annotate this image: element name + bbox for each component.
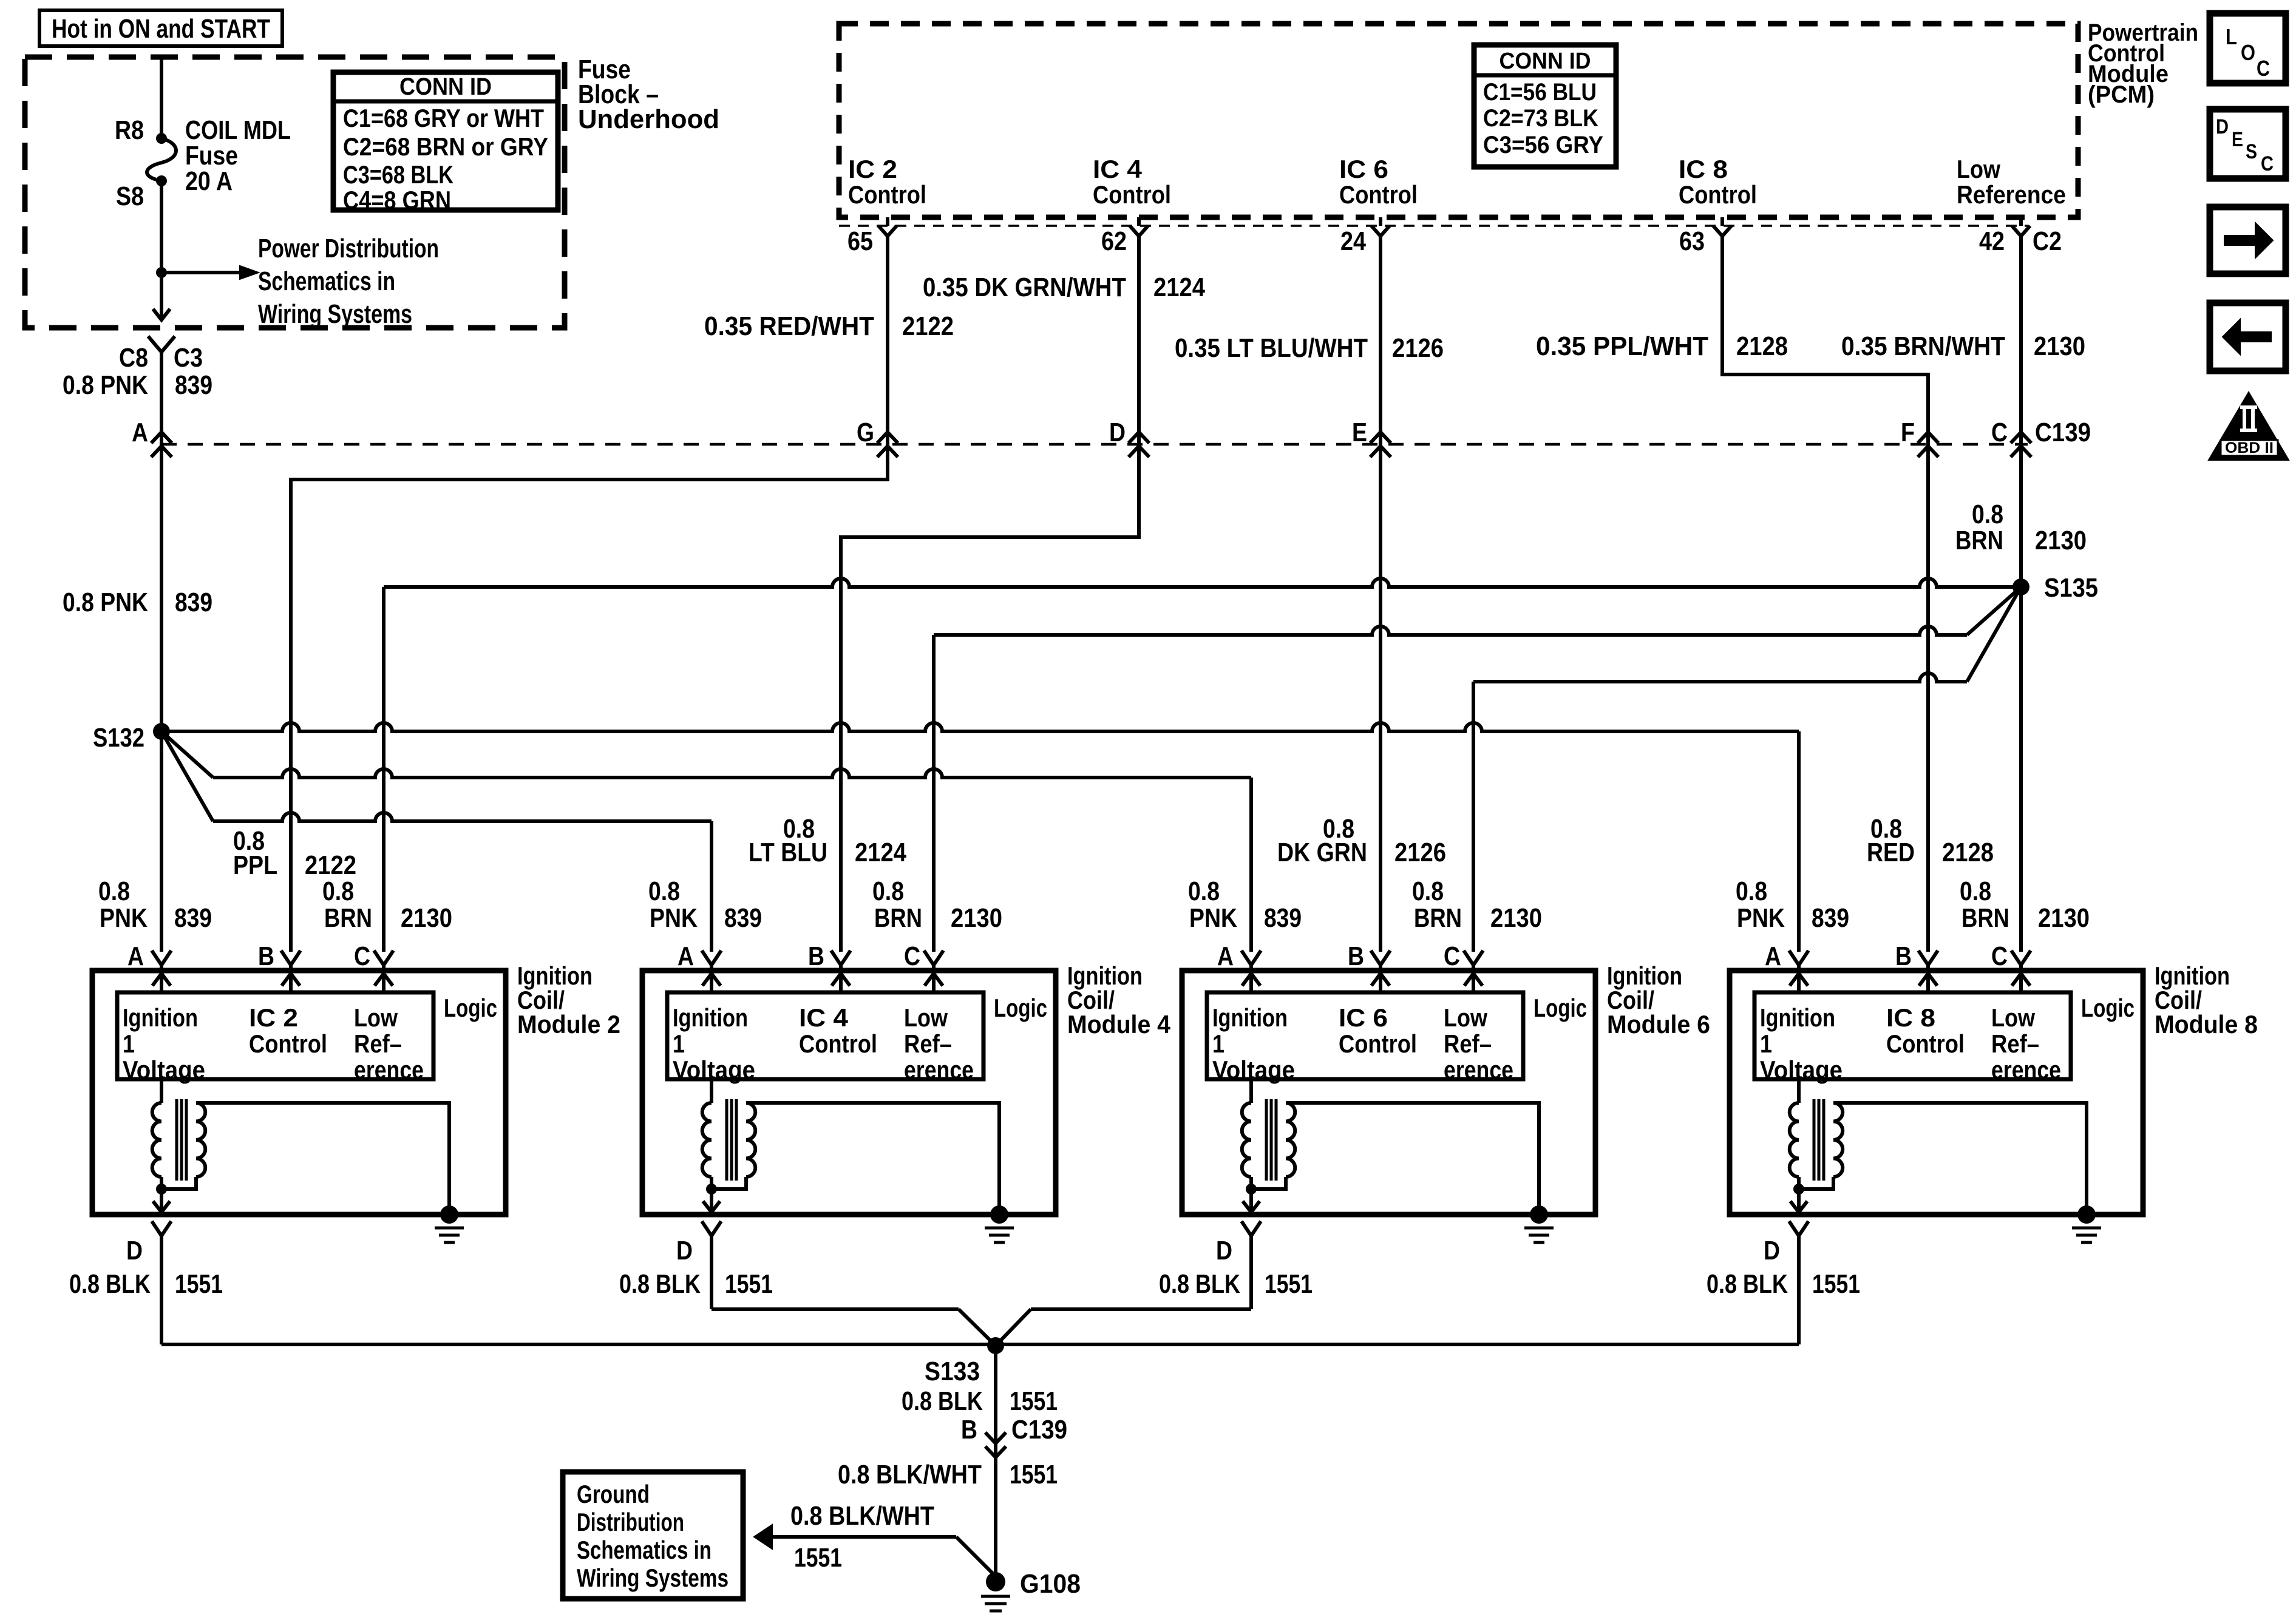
svg-text:erence: erence — [904, 1056, 974, 1084]
svg-text:Low: Low — [354, 1003, 398, 1032]
svg-text:Power Distribution: Power Distribution — [258, 234, 439, 263]
svg-text:Module 2: Module 2 — [517, 1010, 620, 1039]
svg-text:D: D — [1216, 1236, 1232, 1266]
svg-text:20 A: 20 A — [185, 166, 233, 196]
svg-text:839: 839 — [175, 370, 212, 400]
svg-text:BRN: BRN — [1961, 903, 2009, 933]
svg-text:24: 24 — [1340, 226, 1366, 256]
svg-text:Low: Low — [904, 1003, 948, 1032]
svg-text:0.8: 0.8 — [648, 876, 680, 906]
svg-text:DK GRN: DK GRN — [1277, 838, 1367, 867]
svg-text:2130: 2130 — [1490, 903, 1542, 933]
svg-text:Underhood: Underhood — [578, 104, 719, 134]
svg-text:C8: C8 — [119, 343, 148, 373]
svg-text:Distribution: Distribution — [577, 1508, 684, 1536]
svg-text:(PCM): (PCM) — [2088, 81, 2155, 108]
svg-text:PPL: PPL — [233, 850, 277, 880]
svg-text:2122: 2122 — [305, 850, 356, 880]
svg-text:Voltage: Voltage — [1760, 1056, 1843, 1084]
svg-text:Control: Control — [1679, 180, 1757, 209]
svg-text:BRN: BRN — [324, 903, 372, 933]
svg-text:0.8: 0.8 — [1736, 876, 1767, 906]
svg-text:0.8: 0.8 — [1960, 876, 1991, 906]
svg-text:2130: 2130 — [2035, 526, 2087, 555]
svg-text:0.8 BLK: 0.8 BLK — [902, 1386, 983, 1416]
svg-text:CONN ID: CONN ID — [399, 73, 492, 100]
svg-text:IC 6: IC 6 — [1339, 155, 1388, 183]
svg-text:Ref–: Ref– — [1991, 1029, 2039, 1058]
svg-text:839: 839 — [1264, 903, 1302, 933]
svg-text:0.8: 0.8 — [1188, 876, 1220, 906]
svg-text:0.8: 0.8 — [1412, 876, 1444, 906]
svg-text:Voltage: Voltage — [1212, 1056, 1295, 1084]
svg-text:1: 1 — [673, 1029, 685, 1058]
svg-text:BRN: BRN — [1955, 526, 2003, 555]
svg-text:PNK: PNK — [650, 903, 698, 933]
svg-text:S8: S8 — [116, 181, 144, 211]
svg-text:C139: C139 — [1011, 1415, 1067, 1445]
svg-text:PNK: PNK — [100, 903, 148, 933]
svg-text:0.35 RED/WHT: 0.35 RED/WHT — [704, 311, 874, 341]
svg-text:B: B — [258, 941, 274, 971]
svg-text:O: O — [2241, 40, 2255, 65]
svg-text:C2=68 BRN or GRY: C2=68 BRN or GRY — [343, 132, 548, 161]
svg-text:C3=56 GRY: C3=56 GRY — [1483, 132, 1603, 158]
svg-text:62: 62 — [1101, 226, 1127, 256]
svg-text:IC 2: IC 2 — [249, 1003, 298, 1032]
svg-text:S132: S132 — [93, 723, 144, 753]
svg-text:Ground: Ground — [577, 1480, 650, 1508]
svg-text:1: 1 — [1212, 1029, 1224, 1058]
svg-text:D: D — [126, 1236, 143, 1266]
svg-text:LT BLU: LT BLU — [749, 838, 827, 867]
svg-text:0.35 BRN/WHT: 0.35 BRN/WHT — [1841, 331, 2005, 361]
svg-text:Logic: Logic — [1533, 994, 1587, 1022]
svg-text:2130: 2130 — [2038, 903, 2090, 933]
svg-text:1: 1 — [1760, 1029, 1772, 1058]
svg-text:PNK: PNK — [1189, 903, 1237, 933]
svg-text:A: A — [678, 941, 694, 971]
svg-text:2126: 2126 — [1392, 333, 1444, 363]
svg-text:E: E — [1352, 418, 1367, 447]
svg-text:1551: 1551 — [1010, 1460, 1058, 1490]
svg-text:IC 4: IC 4 — [1093, 155, 1143, 183]
svg-text:Reference: Reference — [1957, 180, 2066, 209]
svg-text:erence: erence — [1991, 1056, 2061, 1084]
svg-text:Control: Control — [1886, 1029, 1965, 1058]
svg-text:2122: 2122 — [902, 311, 954, 341]
svg-text:Module 6: Module 6 — [1607, 1010, 1710, 1039]
svg-text:0.8: 0.8 — [872, 876, 904, 906]
svg-text:Low: Low — [1991, 1003, 2035, 1032]
svg-text:Schematics in: Schematics in — [577, 1536, 712, 1564]
svg-text:E: E — [2232, 128, 2243, 151]
svg-text:Ignition: Ignition — [1212, 1003, 1288, 1032]
svg-text:C: C — [904, 941, 920, 971]
svg-text:1: 1 — [123, 1029, 135, 1058]
svg-text:PNK: PNK — [1737, 903, 1785, 933]
svg-text:C: C — [354, 941, 370, 971]
svg-text:63: 63 — [1679, 226, 1705, 256]
svg-text:A: A — [1765, 941, 1781, 971]
svg-text:2124: 2124 — [855, 838, 906, 867]
svg-text:Control: Control — [1339, 1029, 1417, 1058]
svg-text:L: L — [2226, 24, 2237, 49]
svg-text:G108: G108 — [1020, 1569, 1081, 1599]
svg-text:2130: 2130 — [951, 903, 1002, 933]
svg-text:839: 839 — [175, 588, 212, 617]
svg-text:erence: erence — [1444, 1056, 1513, 1084]
svg-text:C4=8 GRN: C4=8 GRN — [343, 186, 451, 214]
svg-text:1551: 1551 — [1265, 1269, 1313, 1299]
svg-text:C: C — [1991, 418, 2008, 447]
svg-text:erence: erence — [354, 1056, 424, 1084]
svg-text:Ignition: Ignition — [1760, 1003, 1835, 1032]
svg-text:0.8 BLK/WHT: 0.8 BLK/WHT — [790, 1501, 934, 1531]
svg-text:Logic: Logic — [444, 994, 497, 1022]
svg-text:C2: C2 — [2033, 226, 2062, 256]
svg-text:Schematics in: Schematics in — [258, 266, 395, 296]
svg-text:839: 839 — [174, 903, 212, 933]
svg-text:C: C — [2257, 56, 2270, 81]
svg-text:Logic: Logic — [994, 994, 1047, 1022]
svg-text:Voltage: Voltage — [673, 1056, 755, 1084]
svg-text:0.8: 0.8 — [98, 876, 130, 906]
svg-text:Hot in ON and START: Hot in ON and START — [52, 14, 270, 44]
svg-text:839: 839 — [1812, 903, 1849, 933]
svg-text:0.8: 0.8 — [322, 876, 354, 906]
svg-text:0.8: 0.8 — [1972, 500, 2003, 529]
svg-text:Low: Low — [1444, 1003, 1487, 1032]
svg-text:RED: RED — [1867, 838, 1915, 867]
svg-text:C2=73 BLK: C2=73 BLK — [1483, 105, 1598, 132]
svg-text:1551: 1551 — [175, 1269, 223, 1299]
svg-text:2130: 2130 — [401, 903, 452, 933]
svg-text:Ignition: Ignition — [673, 1003, 748, 1032]
svg-text:2126: 2126 — [1394, 838, 1446, 867]
svg-text:IC 2: IC 2 — [848, 155, 897, 183]
svg-text:F: F — [1901, 418, 1915, 447]
svg-text:R8: R8 — [115, 115, 144, 145]
svg-text:0.35 LT BLU/WHT: 0.35 LT BLU/WHT — [1175, 333, 1368, 363]
svg-text:IC 6: IC 6 — [1339, 1003, 1388, 1032]
svg-text:A: A — [127, 941, 144, 971]
svg-text:Control: Control — [249, 1029, 327, 1058]
svg-text:Low: Low — [1957, 155, 2000, 183]
svg-text:Voltage: Voltage — [123, 1056, 205, 1084]
svg-text:C: C — [1991, 941, 2008, 971]
svg-text:Ref–: Ref– — [1444, 1029, 1492, 1058]
svg-text:Control: Control — [1093, 180, 1171, 209]
svg-text:Ref–: Ref– — [904, 1029, 952, 1058]
svg-text:0.35 PPL/WHT: 0.35 PPL/WHT — [1536, 331, 1708, 361]
svg-text:Control: Control — [799, 1029, 877, 1058]
svg-text:B: B — [1348, 941, 1364, 971]
svg-text:C1=68 GRY or WHT: C1=68 GRY or WHT — [343, 104, 544, 132]
svg-text:Module 4: Module 4 — [1067, 1010, 1171, 1039]
svg-text:0.8 PNK: 0.8 PNK — [63, 588, 148, 617]
svg-text:42: 42 — [1979, 226, 2005, 256]
svg-text:B: B — [961, 1415, 977, 1445]
svg-text:0.8 PNK: 0.8 PNK — [63, 370, 148, 400]
svg-text:0.8 BLK: 0.8 BLK — [1707, 1269, 1788, 1299]
svg-text:2128: 2128 — [1736, 331, 1788, 361]
svg-text:D: D — [1109, 418, 1126, 447]
svg-text:2128: 2128 — [1942, 838, 1994, 867]
svg-text:D: D — [1764, 1236, 1780, 1266]
svg-text:2130: 2130 — [2034, 331, 2085, 361]
svg-text:Control: Control — [1339, 180, 1418, 209]
svg-text:2124: 2124 — [1153, 273, 1205, 302]
svg-text:Module 8: Module 8 — [2155, 1010, 2258, 1039]
svg-text:D: D — [676, 1236, 693, 1266]
svg-text:65: 65 — [847, 226, 873, 256]
svg-text:C139: C139 — [2035, 418, 2091, 447]
svg-text:D: D — [2216, 115, 2229, 138]
svg-text:IC 8: IC 8 — [1679, 155, 1728, 183]
svg-text:0.8 BLK: 0.8 BLK — [1159, 1269, 1240, 1299]
svg-text:BRN: BRN — [1414, 903, 1462, 933]
svg-text:S: S — [2246, 140, 2257, 163]
svg-text:1551: 1551 — [794, 1543, 842, 1573]
svg-text:Wiring Systems: Wiring Systems — [258, 299, 412, 329]
svg-text:1551: 1551 — [725, 1269, 773, 1299]
svg-text:C3: C3 — [174, 343, 203, 373]
svg-text:S135: S135 — [2044, 573, 2098, 603]
svg-text:1551: 1551 — [1010, 1386, 1058, 1416]
svg-text:Ignition: Ignition — [123, 1003, 198, 1032]
svg-text:CONN ID: CONN ID — [1500, 49, 1591, 74]
svg-text:1551: 1551 — [1812, 1269, 1860, 1299]
svg-text:IC 8: IC 8 — [1886, 1003, 1935, 1032]
svg-text:C: C — [2261, 152, 2274, 175]
svg-text:IC 4: IC 4 — [799, 1003, 849, 1032]
svg-text:C1=56 BLU: C1=56 BLU — [1483, 79, 1597, 106]
svg-text:C3=68 BLK: C3=68 BLK — [343, 160, 453, 189]
svg-text:Wiring Systems: Wiring Systems — [577, 1564, 729, 1592]
svg-text:S133: S133 — [925, 1357, 980, 1386]
svg-text:BRN: BRN — [874, 903, 922, 933]
svg-text:0.35 DK GRN/WHT: 0.35 DK GRN/WHT — [923, 273, 1126, 302]
svg-text:Ref–: Ref– — [354, 1029, 402, 1058]
svg-text:A: A — [132, 418, 148, 447]
svg-text:Logic: Logic — [2081, 994, 2135, 1022]
svg-text:C: C — [1444, 941, 1460, 971]
svg-text:B: B — [808, 941, 824, 971]
svg-text:0.8 BLK: 0.8 BLK — [69, 1269, 151, 1299]
svg-text:OBD II: OBD II — [2225, 439, 2274, 456]
svg-text:839: 839 — [724, 903, 762, 933]
svg-text:Control: Control — [848, 180, 926, 209]
svg-text:0.8 BLK: 0.8 BLK — [619, 1269, 701, 1299]
svg-text:G: G — [857, 418, 874, 447]
svg-text:B: B — [1895, 941, 1912, 971]
svg-text:0.8 BLK/WHT: 0.8 BLK/WHT — [838, 1460, 982, 1490]
svg-text:A: A — [1217, 941, 1234, 971]
